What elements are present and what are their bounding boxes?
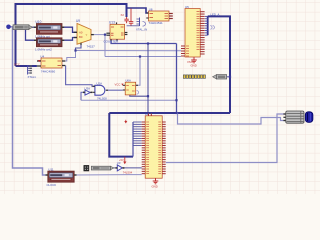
connector J1 [28, 65, 37, 79]
wire [123, 167, 142, 169]
wire [62, 38, 77, 41]
wire [26, 29, 37, 41]
svg-text:CLOCK: CLOCK [47, 183, 57, 187]
crystal cluster X2 C1 C2 [121, 9, 148, 32]
IC U5 (main MCU) [185, 5, 200, 57]
wire [136, 57, 140, 86]
wire [105, 56, 181, 58]
wire [66, 66, 95, 87]
wire hop arc near U6A [137, 91, 139, 95]
wire [76, 44, 82, 51]
svg-text:74LS08: 74LS08 [97, 96, 107, 100]
svg-text:LED_A: LED_A [211, 13, 220, 17]
capacitor C1 [124, 17, 128, 23]
wire [81, 99, 177, 101]
svg-text:COUNTER: COUNTER [104, 39, 120, 43]
svg-text:A0: A0 [79, 31, 83, 35]
wire [76, 50, 182, 52]
svg-text:VCC: VCC [115, 83, 121, 87]
svg-text:GND: GND [191, 63, 197, 67]
capacitor C2 [129, 9, 133, 26]
ground below U5 [187, 57, 197, 67]
wire [177, 113, 286, 124]
crystal pins [139, 18, 141, 27]
wire [9, 27, 46, 175]
oscillator X1 [13, 25, 33, 30]
ground below U7 [152, 178, 159, 188]
buffer U3B [116, 161, 133, 175]
wire [62, 27, 77, 32]
wire bus stubs [205, 16, 208, 35]
svg-text:B0: B0 [79, 35, 83, 39]
wire IC2 loop [109, 113, 133, 157]
wire [114, 167, 118, 169]
wire [16, 4, 127, 66]
crystal block X3 [84, 165, 89, 171]
power port at loop bottom [119, 157, 126, 164]
counter IC U13 [104, 21, 128, 44]
wire [147, 44, 149, 116]
wire [132, 122, 134, 157]
node junction dots [74, 34, 231, 115]
wire [130, 95, 148, 96]
svg-text:VCC: VCC [14, 63, 20, 67]
sounder LS1 [213, 75, 227, 79]
svg-text:U3: U3 [117, 161, 121, 165]
svg-text:74HC4511: 74HC4511 [149, 21, 163, 25]
svg-text:XTAL_IN: XTAL_IN [136, 28, 147, 32]
wire [65, 51, 75, 62]
counter instrument U12 [34, 38, 64, 52]
IC U4 74HC4060 [14, 54, 65, 73]
wire [166, 114, 286, 163]
counter instrument U10 [34, 20, 64, 39]
flip-flop U6A [115, 79, 139, 95]
AND gate U2A [93, 82, 109, 101]
svg-text:74LS04: 74LS04 [123, 171, 133, 175]
svg-text:74HC4060: 74HC4060 [41, 69, 56, 73]
counter instrument U11 [46, 168, 77, 187]
svg-text:U9: U9 [76, 19, 80, 23]
buffer U3A [83, 86, 92, 95]
IC U7 right pins [162, 122, 166, 174]
wire [16, 65, 37, 67]
power port VCC [38, 60, 41, 62]
power port VCC at U7 top-left [124, 120, 127, 124]
svg-text:X2: X2 [121, 13, 125, 17]
svg-text:Y: Y [86, 33, 88, 37]
wire [106, 89, 123, 91]
IC U8 [146, 7, 173, 25]
wire [81, 92, 85, 100]
IC U5 left pins [181, 46, 185, 56]
wire crystal link [127, 25, 140, 27]
node input terminal dot [6, 25, 11, 30]
IC U5 right pins [200, 12, 204, 54]
wire pin bus [207, 16, 209, 35]
motor cap [305, 112, 313, 123]
motor M1 [283, 111, 304, 123]
IC U5 inner pin names [186, 12, 200, 56]
wire hop arcs [210, 26, 214, 30]
wire [91, 34, 106, 36]
IC U7 inner pin names [146, 122, 161, 174]
svg-text:GND: GND [152, 185, 158, 189]
wire comb stubs [133, 122, 142, 146]
wire [109, 112, 230, 114]
wire [74, 174, 142, 176]
IC U7 left pins [142, 122, 146, 174]
wire [208, 16, 230, 113]
resistor pack RP1 [183, 75, 205, 78]
multiplexer U9 [74, 19, 95, 49]
svg-text:74157: 74157 [87, 45, 96, 49]
IC U7 (second MCU) [145, 112, 162, 178]
wire [104, 35, 106, 57]
wire [127, 8, 149, 13]
wire [227, 76, 230, 78]
svg-text:XTAL1: XTAL1 [28, 75, 37, 79]
wire [111, 39, 177, 43]
svg-text:1.0MHz cnt2: 1.0MHz cnt2 [35, 48, 52, 52]
oscillator X4 [91, 166, 114, 170]
wire [176, 44, 178, 114]
IC U7 top pins [148, 114, 150, 116]
wire [33, 26, 37, 28]
